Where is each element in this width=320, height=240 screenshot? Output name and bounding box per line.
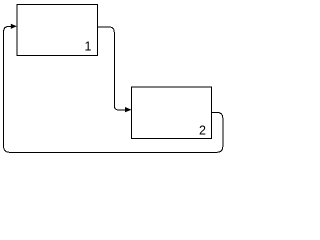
svg-text:2: 2 xyxy=(199,124,206,138)
svg-text:1: 1 xyxy=(85,40,92,54)
wire box2 right around bottom to box1 left xyxy=(4,27,223,153)
arrowhead into box 2 xyxy=(125,107,132,112)
wire box1 right to box2 left xyxy=(97,27,126,110)
box 1 xyxy=(17,4,98,55)
box 2 xyxy=(131,87,211,139)
arrowhead into box 1 xyxy=(11,24,17,29)
